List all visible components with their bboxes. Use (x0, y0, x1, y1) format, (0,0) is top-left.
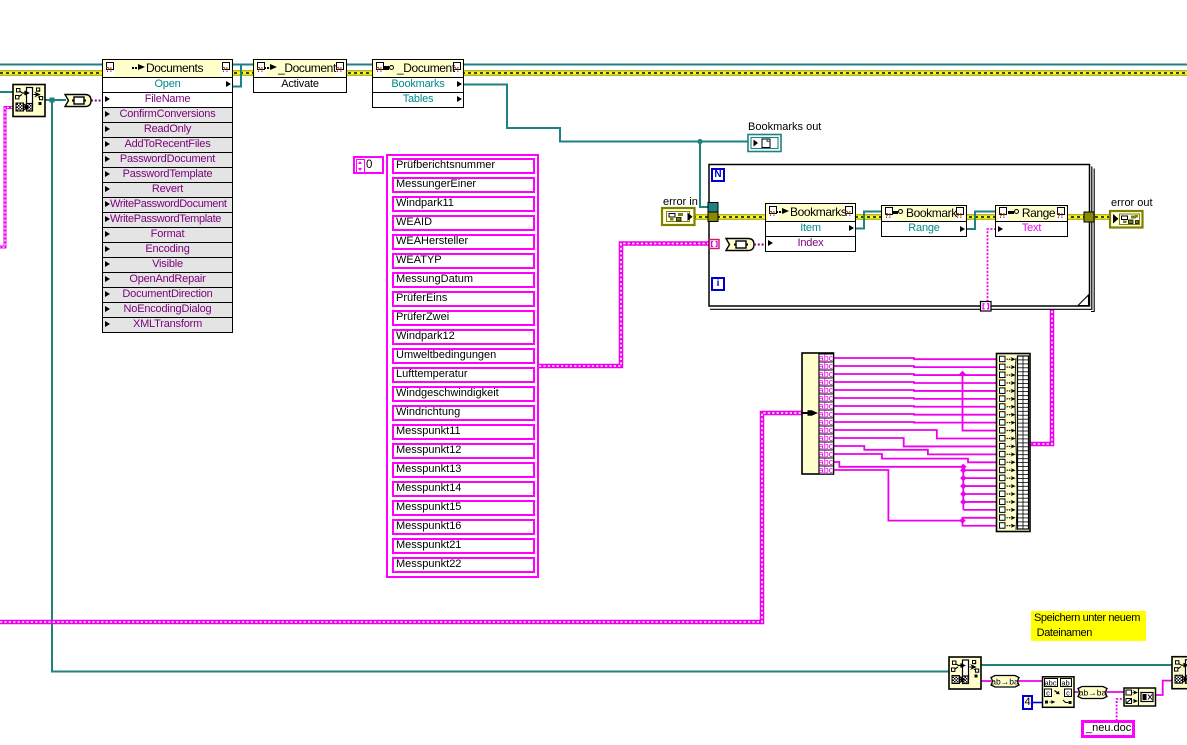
svg-text:abc: abc (819, 465, 834, 475)
svg-text:ab→ba: ab→ba (1079, 688, 1107, 698)
svg-text:c: c (1066, 689, 1070, 698)
svg-text:abc: abc (1044, 679, 1056, 688)
svg-text:c: c (1046, 689, 1050, 698)
svg-text:ab: ab (1061, 679, 1069, 688)
svg-text:ab→ba: ab→ba (991, 676, 1019, 686)
